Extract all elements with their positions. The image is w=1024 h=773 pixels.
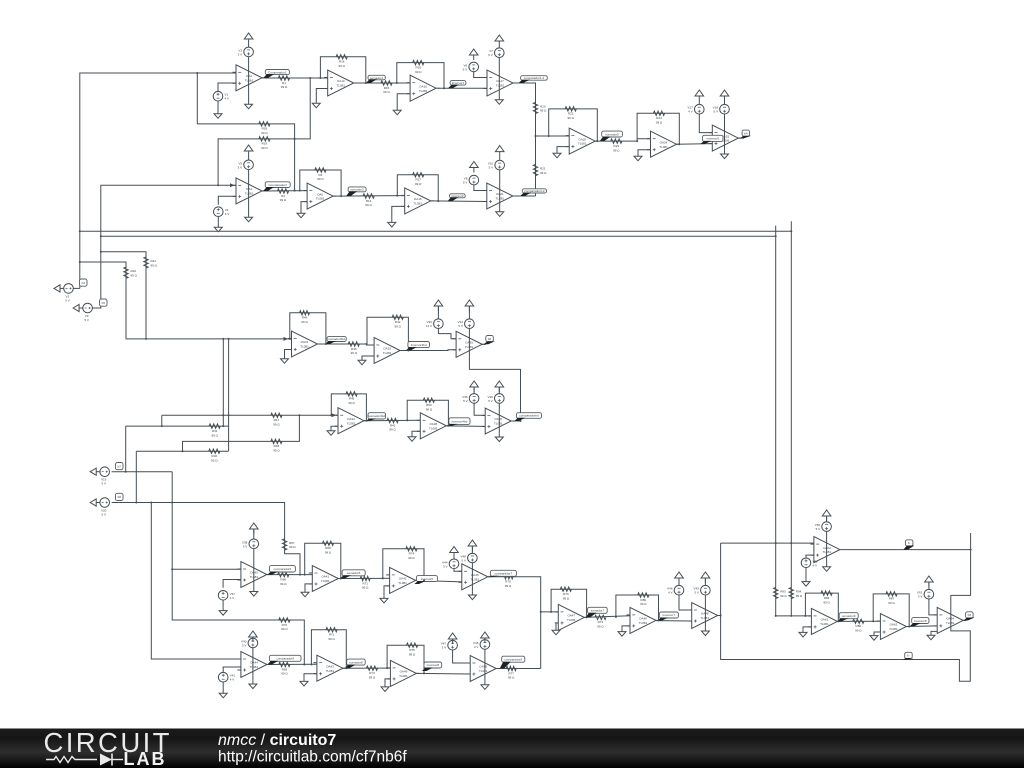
svg-text:TL081: TL081	[245, 192, 254, 196]
svg-text:OA64: OA64	[946, 617, 954, 621]
svg-text:99 Ω: 99 Ω	[855, 629, 862, 633]
svg-text:comparador1-2: comparador1-2	[524, 76, 545, 80]
svg-text:99 Ω: 99 Ω	[640, 602, 647, 606]
svg-text:R48: R48	[274, 444, 280, 448]
svg-text:99 Ω: 99 Ω	[394, 325, 401, 329]
svg-text:5 V: 5 V	[488, 53, 493, 57]
svg-text:99 Ω: 99 Ω	[273, 449, 280, 453]
svg-text:OA44: OA44	[250, 661, 258, 665]
svg-text:OA35: OA35	[465, 341, 473, 345]
svg-text:TL081: TL081	[245, 78, 254, 82]
svg-text:99 Ω: 99 Ω	[328, 637, 335, 641]
svg-text:5 V: 5 V	[463, 67, 468, 71]
svg-text:99 Ω: 99 Ω	[563, 596, 570, 600]
svg-text:4 V: 4 V	[813, 563, 818, 567]
svg-text:OA34: OA34	[347, 417, 355, 421]
svg-text:3 V: 3 V	[238, 52, 243, 56]
svg-text:99 Ω: 99 Ω	[369, 675, 376, 679]
svg-text:99 Ω: 99 Ω	[409, 652, 416, 656]
svg-text:5 V: 5 V	[816, 527, 821, 531]
svg-text:99 Ω: 99 Ω	[426, 407, 433, 411]
svg-text:R87: R87	[889, 597, 895, 601]
svg-text:99 Ω: 99 Ω	[281, 85, 288, 89]
svg-text:http://circuitlab.com/cf7nb6f: http://circuitlab.com/cf7nb6f	[218, 749, 407, 766]
svg-text:TL081: TL081	[250, 665, 259, 669]
svg-text:5 V: 5 V	[463, 181, 468, 185]
svg-text:OA20: OA20	[578, 137, 586, 141]
svg-text:99 Ω: 99 Ω	[301, 320, 308, 324]
svg-text:comparadorbd: comparadorbd	[519, 414, 539, 418]
svg-text:5 V: 5 V	[84, 318, 89, 322]
svg-text:b4: b4	[744, 131, 748, 135]
svg-text:99 Ω: 99 Ω	[888, 601, 895, 605]
svg-text:99 Ω: 99 Ω	[408, 556, 415, 560]
svg-text:OA14: OA14	[337, 79, 345, 83]
svg-text:TL081: TL081	[419, 89, 428, 93]
svg-text:inversor5: inversor5	[707, 137, 720, 141]
svg-text:R46: R46	[302, 316, 308, 320]
svg-text:3 V: 3 V	[242, 644, 247, 648]
svg-text:OA15: OA15	[414, 197, 422, 201]
svg-text:TL081: TL081	[399, 674, 408, 678]
svg-text:5 V: 5 V	[463, 399, 468, 403]
svg-text:TL081: TL081	[479, 669, 488, 673]
svg-text:99 Ω: 99 Ω	[823, 600, 830, 604]
svg-text:OA2: OA2	[246, 74, 252, 78]
svg-text:inversor8: inversor8	[427, 663, 440, 667]
svg-text:inversor1: inversor1	[452, 81, 465, 85]
svg-text:TL081: TL081	[336, 84, 345, 88]
svg-text:OA45: OA45	[471, 573, 479, 577]
svg-text:inversor4bd: inversor4bd	[452, 419, 468, 423]
svg-text:TL081: TL081	[820, 622, 829, 626]
svg-text:3 V: 3 V	[442, 646, 447, 650]
svg-text:somador6: somador6	[347, 571, 361, 575]
svg-text:99 Ω: 99 Ω	[280, 582, 287, 586]
svg-text:comparador6: comparador6	[274, 567, 292, 571]
svg-text:99 Ω: 99 Ω	[151, 263, 158, 267]
svg-text:99 Ω: 99 Ω	[540, 171, 547, 175]
svg-text:b-: b-	[908, 541, 911, 545]
svg-text:R24: R24	[656, 116, 662, 120]
svg-text:99 Ω: 99 Ω	[383, 90, 390, 94]
svg-text:R80: R80	[641, 598, 647, 602]
svg-text:TL081: TL081	[321, 579, 330, 583]
svg-text:99 Ω: 99 Ω	[796, 594, 803, 598]
svg-text:3 V: 3 V	[243, 544, 248, 548]
svg-text:3 V: 3 V	[443, 564, 448, 568]
svg-text:b-: b-	[907, 654, 910, 658]
svg-text:99 Ω: 99 Ω	[415, 70, 422, 74]
svg-text:TL081: TL081	[383, 351, 392, 355]
svg-text:R15: R15	[384, 86, 390, 90]
svg-text:b8: b8	[118, 495, 122, 499]
svg-text:99 Ω: 99 Ω	[656, 121, 663, 125]
svg-text:TL081: TL081	[700, 616, 709, 620]
svg-text:somador8: somador8	[349, 660, 363, 664]
svg-text:OA42: OA42	[399, 577, 407, 581]
svg-text:99 Ω: 99 Ω	[211, 433, 218, 437]
svg-text:4 V: 4 V	[225, 97, 230, 101]
svg-text:TL081: TL081	[429, 426, 438, 430]
svg-text:99 Ω: 99 Ω	[540, 109, 547, 113]
svg-text:99 Ω: 99 Ω	[362, 586, 369, 590]
svg-text:TL081: TL081	[496, 197, 505, 201]
svg-text:OA17: OA17	[496, 79, 504, 83]
svg-text:4 V: 4 V	[230, 596, 235, 600]
svg-text:inversor7: inversor7	[663, 613, 676, 617]
svg-text:R73: R73	[598, 620, 604, 624]
svg-text:TL081: TL081	[889, 627, 898, 631]
svg-text:comparador9: comparador9	[504, 657, 522, 661]
svg-text:R75: R75	[409, 648, 415, 652]
svg-text:R79: R79	[563, 592, 569, 596]
svg-text:99 Ω: 99 Ω	[365, 203, 372, 207]
svg-text:b6: b6	[488, 337, 492, 341]
svg-text:R41: R41	[390, 423, 396, 427]
svg-text:OA49: OA49	[400, 670, 408, 674]
svg-text:OA4: OA4	[246, 187, 252, 191]
svg-text:R17: R17	[415, 178, 421, 182]
svg-text:99 Ω: 99 Ω	[389, 428, 396, 432]
svg-text:TL081: TL081	[465, 345, 474, 349]
svg-text:R16: R16	[416, 65, 422, 69]
svg-text:99 Ω: 99 Ω	[780, 594, 787, 598]
svg-text:OA16: OA16	[419, 84, 427, 88]
svg-text:OA61: OA61	[821, 618, 829, 622]
svg-text:5 V: 5 V	[461, 559, 466, 563]
svg-text:somador3bd: somador3bd	[328, 337, 345, 341]
svg-text:R71: R71	[362, 581, 368, 585]
svg-text:R83: R83	[824, 596, 830, 600]
svg-text:inversor6: inversor6	[421, 577, 434, 581]
svg-text:nmcc / circuito7: nmcc / circuito7	[218, 732, 336, 749]
svg-text:R13: R13	[366, 199, 372, 203]
svg-text:TL081: TL081	[413, 202, 422, 206]
svg-text:Comparador1: Comparador1	[268, 70, 287, 74]
svg-text:R69: R69	[282, 667, 288, 671]
svg-text:R1: R1	[282, 81, 286, 85]
svg-text:somador5: somador5	[605, 132, 619, 136]
svg-text:somador1: somador1	[370, 76, 384, 80]
svg-text:99 Ω: 99 Ω	[567, 116, 574, 120]
svg-text:OA33: OA33	[383, 347, 391, 351]
svg-text:99 Ω: 99 Ω	[273, 423, 280, 427]
svg-text:OA31: OA31	[301, 340, 309, 344]
svg-text:R42: R42	[395, 320, 401, 324]
svg-text:TL081: TL081	[494, 422, 503, 426]
svg-text:TL081: TL081	[471, 577, 480, 581]
svg-text:R18: R18	[262, 127, 268, 131]
svg-text:4 V: 4 V	[688, 110, 693, 114]
svg-text:TL081: TL081	[578, 142, 587, 146]
svg-text:b7: b7	[118, 464, 122, 468]
svg-text:LAB: LAB	[124, 749, 167, 768]
svg-text:TL081: TL081	[250, 575, 259, 579]
svg-text:5 V: 5 V	[713, 110, 718, 114]
svg-text:TL081: TL081	[823, 550, 832, 554]
svg-text:TL081: TL081	[300, 345, 309, 349]
svg-text:99 Ω: 99 Ω	[351, 351, 358, 355]
svg-text:Comparador2: Comparador2	[269, 183, 288, 187]
svg-text:3 V: 3 V	[474, 645, 479, 649]
svg-text:R3: R3	[281, 194, 285, 198]
svg-text:99 Ω: 99 Ω	[289, 545, 296, 549]
svg-text:R36: R36	[351, 347, 357, 351]
svg-text:OA36: OA36	[494, 417, 502, 421]
svg-text:OA43: OA43	[326, 664, 334, 668]
svg-text:R50: R50	[426, 403, 432, 407]
svg-text:99 Ω: 99 Ω	[415, 182, 422, 186]
svg-text:99 Ω: 99 Ω	[348, 401, 355, 405]
svg-text:4 V: 4 V	[668, 591, 673, 595]
svg-text:11 V: 11 V	[426, 324, 432, 328]
svg-text:99 Ω: 99 Ω	[211, 458, 218, 462]
svg-text:99 Ω: 99 Ω	[613, 148, 620, 152]
svg-text:99 Ω: 99 Ω	[281, 672, 288, 676]
svg-text:somador9: somador9	[842, 614, 856, 618]
svg-text:5 V: 5 V	[458, 324, 463, 328]
svg-text:inversor9: inversor9	[914, 619, 927, 623]
svg-text:4 V: 4 V	[225, 212, 230, 216]
svg-text:TL081: TL081	[946, 621, 955, 625]
svg-text:OA46: OA46	[639, 617, 647, 621]
svg-text:TL081: TL081	[496, 84, 505, 88]
svg-text:99 Ω: 99 Ω	[508, 676, 515, 680]
svg-text:5 V: 5 V	[694, 591, 699, 595]
svg-text:OA21: OA21	[496, 192, 504, 196]
svg-text:99 Ω: 99 Ω	[261, 131, 268, 135]
svg-text:OA63: OA63	[890, 623, 898, 627]
svg-text:R77: R77	[508, 671, 514, 675]
svg-text:TL081: TL081	[326, 669, 335, 673]
svg-text:R66: R66	[281, 577, 287, 581]
svg-text:R4: R4	[318, 173, 322, 177]
svg-text:inversor3bd: inversor3bd	[411, 343, 427, 347]
svg-text:R75: R75	[505, 580, 511, 584]
svg-text:OA48: OA48	[701, 612, 709, 616]
svg-text:OA40: OA40	[250, 571, 258, 575]
svg-text:99 Ω: 99 Ω	[597, 625, 604, 629]
svg-text:somador4bd: somador4bd	[368, 414, 385, 418]
svg-text:somador2: somador2	[350, 188, 364, 192]
svg-text:R74: R74	[409, 552, 415, 556]
svg-text:R32: R32	[212, 454, 218, 458]
svg-text:3 V: 3 V	[238, 165, 243, 169]
svg-text:5 V: 5 V	[101, 513, 106, 517]
svg-text:R73: R73	[369, 671, 375, 675]
svg-text:99 Ω: 99 Ω	[338, 64, 345, 68]
svg-text:5 V: 5 V	[489, 166, 494, 170]
svg-text:b5: b5	[102, 301, 106, 305]
svg-text:OA38: OA38	[429, 422, 437, 426]
svg-text:4 V: 4 V	[230, 678, 235, 682]
svg-text:R45: R45	[349, 397, 355, 401]
svg-text:99 Ω: 99 Ω	[261, 146, 268, 150]
svg-text:OA41: OA41	[321, 575, 329, 579]
svg-text:somador7: somador7	[591, 609, 605, 613]
svg-text:R68: R68	[325, 546, 331, 550]
svg-text:R31: R31	[212, 429, 218, 433]
svg-text:5 V: 5 V	[101, 482, 106, 486]
svg-text:OA24: OA24	[660, 140, 668, 144]
svg-text:5 V: 5 V	[65, 298, 70, 302]
svg-text:R19: R19	[262, 142, 268, 146]
svg-text:TL081: TL081	[347, 421, 356, 425]
svg-text:3 V: 3 V	[918, 595, 923, 599]
svg-text:99 Ω: 99 Ω	[505, 584, 512, 588]
svg-text:TL081: TL081	[398, 581, 407, 585]
svg-text:R47: R47	[274, 418, 280, 422]
svg-text:99 Ω: 99 Ω	[317, 177, 324, 181]
svg-text:TL081: TL081	[567, 618, 576, 622]
svg-text:OA50: OA50	[479, 665, 487, 669]
svg-text:OA6: OA6	[317, 192, 323, 196]
svg-text:R22: R22	[568, 112, 574, 116]
svg-text:5 V: 5 V	[488, 399, 493, 403]
svg-text:R23: R23	[614, 144, 620, 148]
svg-text:R71: R71	[329, 633, 335, 637]
svg-text:b8: b8	[968, 613, 972, 617]
svg-text:TL081: TL081	[316, 197, 325, 201]
svg-text:99 Ω: 99 Ω	[281, 627, 288, 631]
svg-text:R70: R70	[282, 623, 288, 627]
svg-text:99 Ω: 99 Ω	[131, 274, 138, 278]
svg-text:R14: R14	[339, 60, 345, 64]
svg-text:b4: b4	[82, 281, 86, 285]
svg-text:TL081: TL081	[639, 621, 648, 625]
svg-text:OA47: OA47	[567, 614, 575, 618]
svg-text:99 Ω: 99 Ω	[325, 551, 332, 555]
svg-text:comparador8: comparador8	[276, 657, 294, 661]
svg-text:TL081: TL081	[659, 145, 668, 149]
svg-text:OA62: OA62	[823, 546, 831, 550]
svg-text:comparador7: comparador7	[495, 572, 513, 576]
svg-text:99 Ω: 99 Ω	[280, 198, 287, 202]
svg-text:R86: R86	[856, 624, 862, 628]
